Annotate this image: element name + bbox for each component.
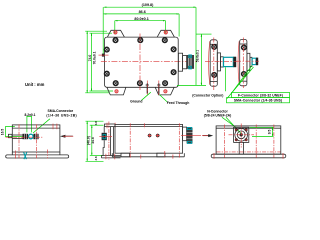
view A body [6, 125, 69, 158]
svg-text:Unit : mm: Unit : mm [25, 82, 45, 87]
svg-text:F-Connector (3/8-32 UNEF): F-Connector (3/8-32 UNEF) [238, 94, 283, 98]
screw bottom-middle [138, 81, 143, 86]
view B body [102, 124, 121, 158]
svg-text:SMA-Connector (1/4-36 UNS): SMA-Connector (1/4-36 UNS) [234, 99, 282, 103]
view B SMA connector [99, 133, 112, 140]
side view body [209, 40, 237, 86]
view C body [112, 125, 184, 157]
view B dims 40.0 / 34.6 / 3.6 [86, 121, 104, 162]
svg-text:70.0±0.1: 70.0±0.1 [93, 51, 97, 64]
svg-text:(Connector Option): (Connector Option) [192, 93, 223, 97]
view C pins [148, 134, 160, 138]
svg-text:(40.0): (40.0) [87, 136, 91, 145]
ground label [130, 92, 151, 104]
dimension 74.0 left [85, 31, 109, 93]
svg-text:3.6: 3.6 [94, 156, 98, 161]
dimension 86.6 [104, 10, 179, 37]
option view body [238, 40, 258, 86]
mounting tab bottom-left [107, 87, 126, 95]
option leaders [232, 66, 253, 94]
svg-text:(109.8): (109.8) [142, 3, 154, 7]
view A SMA connector [12, 134, 39, 139]
view C red centerlines [130, 123, 179, 158]
view B centerline [108, 122, 110, 161]
dimension 9.5 [250, 127, 274, 136]
svg-text:3.6: 3.6 [94, 121, 98, 126]
mounting tab bottom-right [155, 87, 174, 95]
leader connector option from side view [225, 67, 227, 91]
main top view body [105, 37, 179, 87]
view C N connector [181, 127, 201, 143]
view A arrow [60, 135, 73, 138]
screw top-middle [138, 38, 143, 43]
SMA-connector label box [227, 98, 290, 103]
view D body [211, 126, 286, 158]
view D flange [234, 127, 249, 142]
SMA label view A [33, 109, 77, 133]
arrow into view D [202, 134, 213, 137]
screw top-right [163, 38, 168, 43]
dimension (109.8) top [103, 3, 196, 85]
dimension 80.0 [115, 17, 166, 34]
dimension 16.5 [0, 127, 22, 137]
svg-text:Feed Through: Feed Through [167, 101, 190, 105]
feed through label [160, 95, 190, 105]
side view screw upper [212, 45, 217, 50]
left stub [99, 54, 109, 57]
option view screw upper [242, 45, 247, 50]
screw left-lower [105, 71, 110, 76]
dimension 8.2 [25, 113, 36, 132]
svg-text:59.6±0.1: 59.6±0.1 [196, 50, 200, 63]
svg-text:(5/8-24 UNEF-2A): (5/8-24 UNEF-2A) [204, 114, 232, 118]
svg-text:9.5: 9.5 [267, 130, 271, 135]
mounting tab top-left [107, 30, 124, 37]
feed pin 1 (ground) [146, 81, 149, 95]
centerline horizontal main [101, 61, 200, 63]
view D column below flange [239, 142, 243, 154]
svg-text:80.0±0.1: 80.0±0.1 [134, 17, 148, 21]
side view screw lower [212, 73, 217, 78]
svg-text:34.6: 34.6 [91, 137, 95, 144]
F-connector label box [232, 92, 290, 97]
side view centerlines [205, 61, 237, 63]
svg-text:Ground: Ground [130, 100, 142, 104]
screw top-left [113, 38, 118, 43]
screw right-lower [171, 70, 176, 75]
N-connector label view D [204, 110, 241, 134]
extension line bottom right [177, 84, 206, 86]
N-connector on right of top view [178, 53, 194, 71]
svg-text:86.6: 86.6 [139, 10, 146, 14]
screw bottom-left [113, 81, 118, 86]
screw right-upper [171, 47, 176, 52]
mounting tab top-right [157, 30, 174, 37]
option view screw lower [242, 72, 247, 77]
screws main view [105, 38, 176, 86]
view A left stub [8, 134, 12, 137]
svg-text:16.5: 16.5 [0, 129, 4, 136]
screw left-upper [105, 47, 110, 52]
dimension 59.6 right [196, 34, 212, 85]
svg-text:(1/4-36 UNS-2B): (1/4-36 UNS-2B) [46, 113, 77, 117]
dimension 70.0 left [90, 33, 114, 91]
option view centerlines [236, 60, 259, 62]
view A cyan mark [24, 152, 27, 159]
view A red centerlines [6, 124, 57, 159]
view D red lines [214, 124, 283, 159]
screw bottom-right [163, 81, 168, 86]
feed pin 2 (feed through) [157, 81, 160, 96]
centerline vertical main [139, 34, 141, 91]
